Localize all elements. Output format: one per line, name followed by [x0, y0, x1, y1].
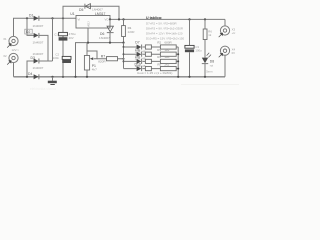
svg-text:R2: R2 — [157, 41, 161, 45]
wire input rail top — [14, 18, 77, 36]
diode D2 — [25, 29, 44, 44]
ladder row 4 — [124, 62, 179, 71]
svg-text:0V: 0V — [232, 51, 236, 55]
svg-text:2k2: 2k2 — [164, 62, 169, 66]
svg-text:1N4007: 1N4007 — [33, 66, 44, 70]
connector X2 — [3, 53, 18, 64]
LED D8 — [202, 53, 214, 78]
junction dots output rail — [109, 18, 111, 20]
svg-text:1N4007: 1N4007 — [92, 8, 103, 12]
ladder row 3 — [124, 55, 179, 68]
svg-text:D2: D2 — [26, 30, 30, 34]
wire D3 cathode — [39, 60, 53, 62]
capacitor C1 — [54, 18, 76, 78]
junction dot X2 branch — [26, 76, 28, 78]
svg-text:D5: D5 — [79, 8, 83, 12]
resistor R6 — [203, 19, 212, 57]
svg-text:U1: U1 — [70, 12, 74, 16]
potentiometer P1 — [84, 43, 124, 78]
svg-text:1N4007: 1N4007 — [33, 24, 44, 28]
capacitor C2 — [53, 52, 71, 63]
svg-text:40V: 40V — [69, 36, 74, 40]
wire X2 to bottom rail — [13, 63, 15, 77]
svg-text:D8: D8 — [135, 48, 139, 52]
svg-text:+U: +U — [232, 31, 236, 35]
svg-text:1N4007: 1N4007 — [33, 52, 44, 56]
op-amp U1 regulator box — [70, 12, 110, 28]
svg-text:1k8: 1k8 — [164, 55, 169, 59]
svg-text:elektronika shema: elektronika shema — [30, 87, 56, 91]
svg-text:VI: VI — [78, 17, 81, 21]
ladder row 2 — [124, 48, 179, 61]
svg-text:R7: R7 — [101, 55, 105, 59]
svg-text:D9+R4 = 12V / R4=1k8+120: D9+R4 = 12V / R4=1k8+120 — [146, 31, 183, 35]
diode D4 — [28, 52, 44, 79]
svg-text:680R: 680R — [164, 41, 172, 45]
svg-text:1k2: 1k2 — [164, 48, 169, 52]
connector X1 — [3, 36, 18, 47]
wire X1 branch down — [27, 18, 34, 35]
svg-text:R3: R3 — [157, 48, 161, 52]
connector X4 — [219, 46, 236, 77]
diode D6 — [99, 19, 114, 42]
wire ladder return — [177, 47, 179, 77]
svg-text:D4: D4 — [28, 72, 32, 76]
svg-text:820R: 820R — [98, 60, 106, 64]
svg-text:R5: R5 — [157, 62, 161, 66]
svg-text:U tablica:: U tablica: — [146, 16, 162, 20]
svg-text:4k7: 4k7 — [92, 68, 97, 72]
wire bottom rail — [14, 76, 226, 78]
connector X3 — [219, 19, 236, 37]
svg-text:X2: X2 — [3, 54, 7, 58]
svg-text:D10+R5 = 15V / R5=2k2+150: D10+R5 = 15V / R5=2k2+150 — [146, 36, 184, 40]
svg-text:R1: R1 — [128, 26, 132, 30]
node A junction dot — [26, 17, 28, 19]
ground — [48, 76, 57, 85]
diode D5 — [79, 4, 103, 12]
node B junction dot — [51, 17, 53, 19]
capacitor C3 — [185, 19, 202, 78]
svg-text:5mm: 5mm — [206, 69, 213, 73]
wire X2 branch up — [27, 61, 34, 77]
svg-text:D7+R2 = 5V / R2=680R: D7+R2 = 5V / R2=680R — [146, 21, 177, 25]
svg-text:220R: 220R — [128, 30, 135, 34]
svg-text:D9: D9 — [135, 55, 139, 59]
svg-text:1N4007: 1N4007 — [33, 40, 44, 44]
wire top protection loop — [63, 6, 119, 19]
wire node B vertical — [52, 18, 54, 61]
svg-text:D10: D10 — [135, 62, 141, 66]
resistor R1 — [122, 19, 135, 43]
svg-text:D7: D7 — [135, 40, 139, 44]
svg-text:12V∾: 12V∾ — [12, 48, 20, 52]
wire ADJ rail — [87, 28, 89, 43]
wire D2 cathode down — [39, 35, 48, 61]
resistor R7 wiper branch — [97, 58, 124, 60]
svg-text:D1: D1 — [29, 13, 33, 17]
svg-text:rot: rot — [210, 63, 213, 67]
svg-text:1N4007: 1N4007 — [99, 36, 110, 40]
diode D3 — [31, 56, 44, 70]
svg-text:ADJ: ADJ — [87, 21, 91, 27]
svg-text:R4: R4 — [157, 55, 161, 59]
svg-text:C1: C1 — [54, 32, 58, 36]
svg-text:D8+R3 = 9V / R3=1k2+330R: D8+R3 = 9V / R3=1k2+330R — [146, 26, 183, 30]
svg-text:X1: X1 — [3, 37, 7, 41]
diode D1 — [29, 13, 44, 27]
ladder row 1 — [124, 40, 179, 53]
node C junction dot — [62, 17, 64, 19]
wire output rail — [110, 18, 225, 20]
svg-text:Uout = 1.25 x (1 + R2/R1): Uout = 1.25 x (1 + R2/R1) — [137, 71, 172, 75]
svg-text:100n: 100n — [53, 56, 60, 60]
svg-text:100u: 100u — [195, 48, 202, 52]
wire ladder feed — [123, 43, 125, 69]
